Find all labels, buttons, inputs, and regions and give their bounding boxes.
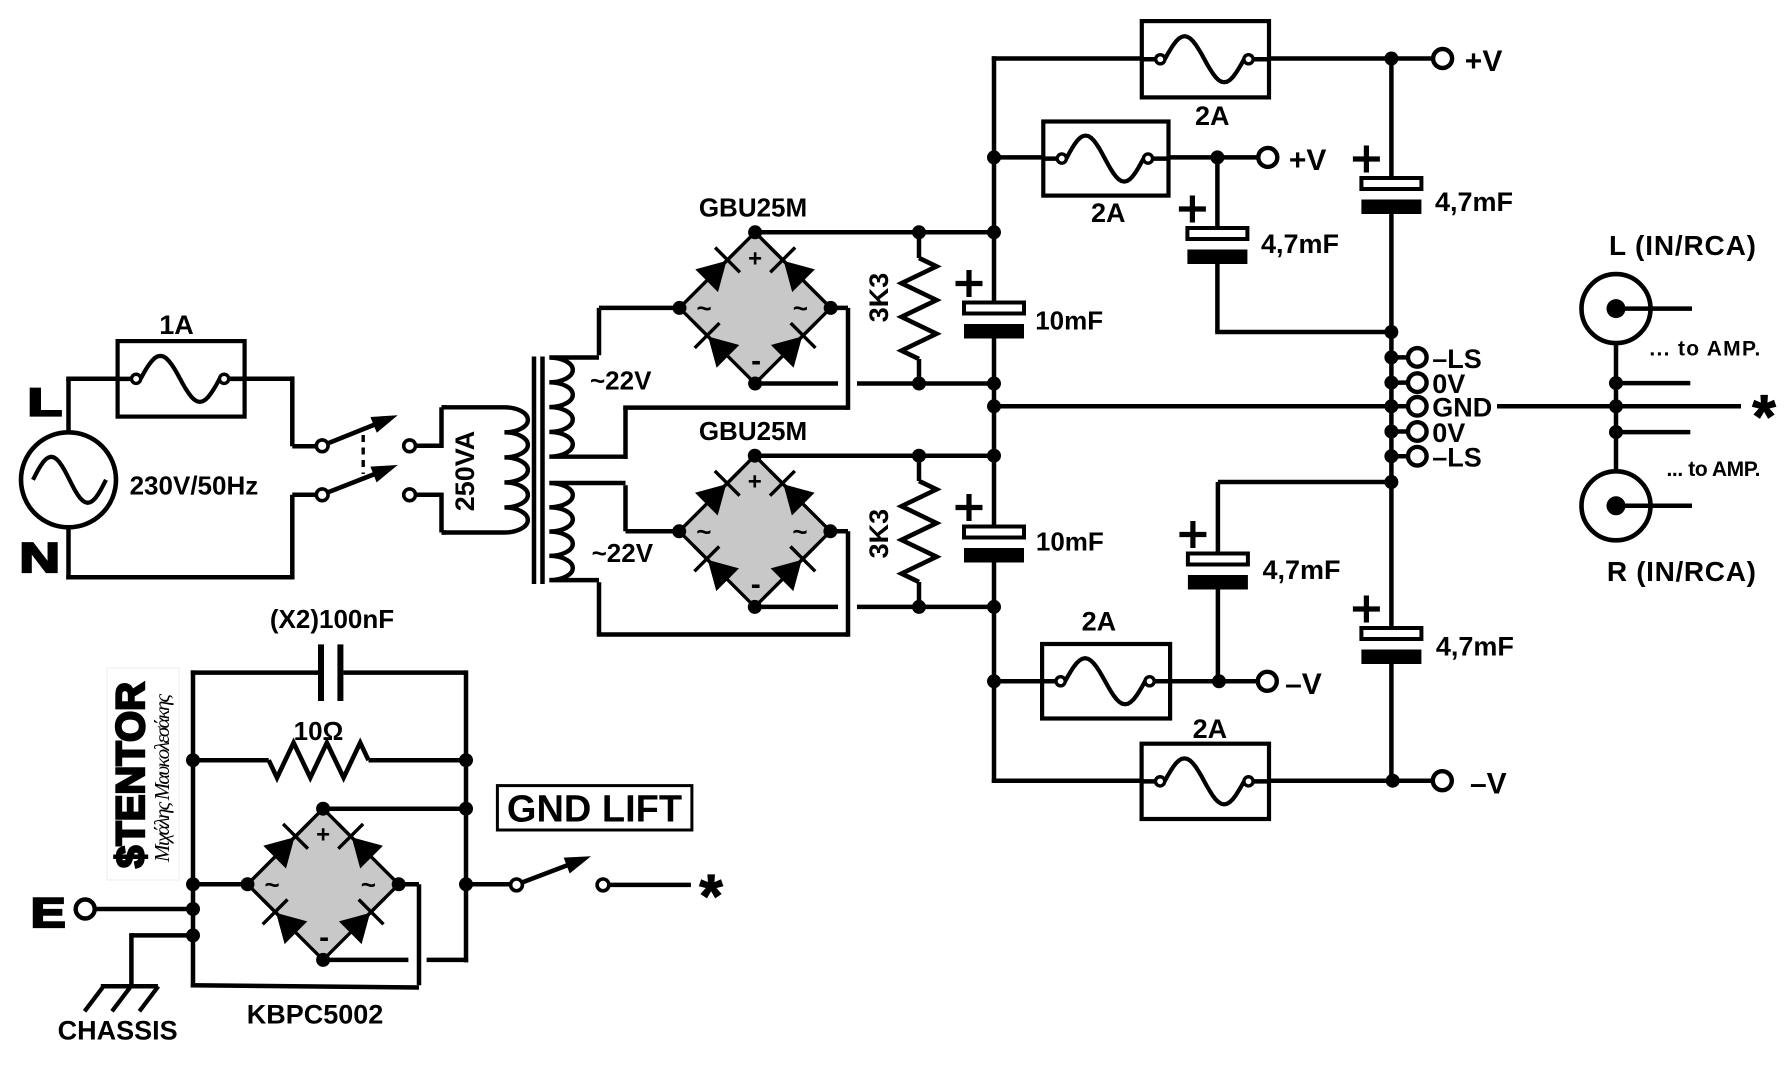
junction C3/rail X4 (1384, 325, 1398, 339)
junction F4/C5 (1212, 674, 1226, 688)
svg-text:+: + (316, 822, 330, 849)
svg-text:~: ~ (792, 516, 807, 546)
svg-text:+V: +V (1465, 45, 1503, 78)
wire rail X1 lower segment (992, 607, 997, 783)
junction BR2- / rail (987, 600, 1001, 614)
wire rail to F3 (994, 155, 1043, 160)
junction L shield 0V a (1609, 376, 1623, 390)
svg-text:230V/50Hz: 230V/50Hz (130, 470, 259, 500)
wire BR3 AC-right down (191, 884, 419, 987)
label KBPC5002 (247, 999, 384, 1029)
junction BR3 AC-left/rail X2 (186, 877, 200, 891)
node L (line) (28, 381, 63, 424)
svg-text:*: * (1752, 383, 1776, 450)
svg-text:R (IN/RCA): R (IN/RCA) (1607, 556, 1756, 587)
wire contact B2 to transformer (415, 493, 446, 533)
resistor R1 3K3 (902, 232, 937, 383)
svg-text:+: + (748, 469, 762, 496)
label 2A F4 (1082, 607, 1117, 637)
wire left rail X2 (191, 670, 196, 987)
junction BR2- / R2 bottom (912, 600, 926, 614)
label –LS 5 (1432, 443, 1482, 473)
capacitor C6 4,7mF (1353, 482, 1422, 781)
junction BR2+ / rail (987, 449, 1001, 463)
wire N-bottom (66, 495, 317, 580)
label 4,7mF C6 (1436, 631, 1514, 661)
fuse F4 2A (1042, 644, 1170, 719)
switch S1 gang dashed link (362, 435, 365, 474)
label ~22V upper (590, 366, 652, 396)
wire GND to terminal (994, 404, 1391, 409)
fuse F5 2A (1142, 744, 1269, 819)
junction BR3+/rail X3 (459, 802, 473, 816)
star point left (699, 863, 723, 930)
junction R3 right (459, 753, 473, 767)
wire L-top (66, 379, 71, 433)
svg-text:$TENTOR: $TENTOR (109, 682, 153, 868)
label GBU25M upper (699, 192, 807, 222)
switch S2 GND LIFT (511, 856, 591, 891)
wire 0V stub b (1616, 430, 1690, 435)
wire rail to F4 (994, 679, 1042, 684)
wire sec2-top to BR2 AC-left (626, 485, 680, 531)
junction F3/C3 (1210, 150, 1224, 164)
label 3K3 lower (864, 509, 894, 559)
label (X2)100nF (270, 604, 394, 634)
svg-text:Μιχάλης Μαυκολεσάκης: Μιχάλης Μαυκολεσάκης (150, 694, 174, 863)
junction E/rail X2 (186, 902, 200, 916)
wire rail X3 to switch S2 (466, 882, 511, 887)
transformer T1 secondary winding 1 (~22V) (549, 358, 625, 457)
terminal 0V 2 (1384, 373, 1426, 392)
svg-text:4,7mF: 4,7mF (1436, 631, 1514, 661)
svg-text:~: ~ (696, 516, 711, 546)
svg-text:–V: –V (1285, 668, 1322, 701)
node N (neutral) (19, 534, 60, 581)
wire contact A2 to transformer (415, 407, 446, 448)
wire sec1-top to BR1 AC-left (599, 308, 679, 355)
svg-text:2A: 2A (1195, 101, 1230, 131)
switch S2 contact 2 (597, 879, 609, 891)
svg-text:*: * (699, 863, 723, 930)
wire sec2-bot to BR2 AC-right (597, 531, 848, 637)
wire BR3 - output (323, 958, 468, 963)
terminal 0V 4 (1384, 422, 1426, 441)
label CHASSIS (58, 1015, 178, 1045)
svg-text:10Ω: 10Ω (294, 716, 344, 746)
svg-text:E: E (31, 890, 66, 937)
junction rail/F3 wire (987, 150, 1001, 164)
svg-text:~: ~ (697, 293, 712, 323)
wire right rail X3 (464, 670, 469, 962)
junction BR1- / R1 bottom (912, 377, 926, 391)
capacitor C1 10mF (956, 232, 1025, 383)
GND LIFT label box (497, 786, 692, 831)
junction L shield 0V b (1609, 425, 1623, 439)
label 230V/50Hz (130, 470, 259, 500)
label 4,7mF C5 (1263, 555, 1341, 585)
wire rail to F2 (992, 56, 1142, 61)
chassis ground symbol (85, 986, 159, 1011)
bridge rectifier BR2 GBU25M (672, 449, 837, 614)
svg-text:2A: 2A (1193, 714, 1228, 744)
wire L to fuse F1 (66, 376, 132, 381)
junction rail/C5 tap (1384, 475, 1398, 489)
junction rail GND tap (987, 399, 1001, 413)
switch S1 pole B (316, 465, 397, 501)
svg-text:10mF: 10mF (1035, 306, 1103, 336)
terminal +V mid (1258, 148, 1277, 167)
label 1A (159, 310, 194, 340)
fuse F3 2A (1043, 122, 1168, 196)
AC source V1 230V/50Hz (21, 432, 116, 527)
svg-text:~: ~ (361, 869, 376, 899)
wire BR2 - output (755, 605, 994, 610)
label 2A F3 (1091, 198, 1126, 228)
label GBU25M lower (699, 416, 807, 446)
RCA jack R outer (1582, 471, 1651, 540)
wire BR3 AC-left to rail X2 (193, 882, 248, 887)
wire F5 to -V (1269, 778, 1442, 783)
svg-text:2A: 2A (1082, 607, 1117, 637)
svg-text:–V: –V (1470, 768, 1507, 801)
svg-text:–LS: –LS (1432, 443, 1482, 473)
svg-text:~22V: ~22V (590, 366, 652, 396)
svg-text:GBU25M: GBU25M (699, 416, 807, 446)
wire 0V stub a (1616, 381, 1690, 386)
STENTOR logo (107, 668, 179, 880)
wire F4 to -V (1170, 679, 1267, 684)
capacitor C5 4,7mF (1179, 482, 1391, 681)
label to AMP upper (1649, 337, 1760, 360)
svg-text:~22V: ~22V (592, 538, 654, 568)
wire BR2 + output (755, 453, 994, 458)
wire E to rail X2 (95, 907, 193, 912)
junction BR2+ / R2 top (912, 449, 926, 463)
junction BR1- / rail (987, 377, 1001, 391)
label –LS 1 (1432, 344, 1482, 374)
wire BR1 - output (755, 381, 994, 386)
junction BR1+ / rail (987, 225, 1001, 239)
resistor R2 3K3 (902, 456, 937, 607)
capacitor C2 10mF (956, 456, 1025, 607)
svg-text:3K3: 3K3 (864, 509, 894, 559)
svg-text:... to AMP.: ... to AMP. (1667, 458, 1761, 481)
junction GND/RCA shield (1609, 399, 1623, 413)
RCA jack L pin (1607, 299, 1693, 318)
svg-text:4,7mF: 4,7mF (1261, 229, 1339, 259)
svg-text:GBU25M: GBU25M (699, 192, 807, 222)
label 4,7mF C4 (1435, 187, 1513, 217)
label -V mid (1285, 668, 1322, 701)
wire rail X4 terminal segment (1389, 332, 1394, 482)
terminal E earth (31, 890, 95, 937)
label +V mid (1289, 144, 1327, 177)
label 3K3 upper (864, 273, 894, 323)
label 0V 4 (1432, 418, 1465, 448)
switch S1 pole A (316, 415, 397, 451)
label 10mF lower (1036, 527, 1104, 557)
terminal +V top (1433, 49, 1452, 68)
star point right (1752, 383, 1776, 450)
wire F3 to +V (1169, 155, 1268, 160)
svg-text:L (IN/RCA): L (IN/RCA) (1609, 230, 1756, 261)
junction R3 left (186, 753, 200, 767)
wire rail to F5 (992, 778, 1142, 783)
wire rail X1 top segment (992, 56, 997, 232)
svg-text:1A: 1A (159, 310, 194, 340)
svg-text:4,7mF: 4,7mF (1435, 187, 1513, 217)
svg-text:4,7mF: 4,7mF (1263, 555, 1341, 585)
transformer T1 primary winding (442, 407, 528, 532)
svg-text:~: ~ (793, 293, 808, 323)
transformer T1 secondary winding 2 (~22V) (549, 483, 625, 580)
switch S1 contact A2 (404, 440, 416, 452)
RCA jack R pin (1607, 496, 1693, 515)
terminal GND 3 (1384, 397, 1426, 416)
terminal -V bottom (1433, 771, 1452, 790)
svg-text:(X2)100nF: (X2)100nF (270, 604, 394, 634)
wire chassis tap (131, 933, 193, 986)
svg-text:KBPC5002: KBPC5002 (247, 999, 384, 1029)
label GND 3 (1432, 393, 1492, 423)
terminal –LS 1 (1384, 348, 1426, 367)
label 0V 2 (1432, 369, 1465, 399)
label 10ohm (294, 716, 344, 746)
fuse F1 1A (118, 341, 245, 417)
wire F2 to +V (1269, 56, 1443, 61)
junction chassis/rail X2 (186, 928, 200, 942)
svg-text:... to AMP.: ... to AMP. (1649, 337, 1760, 360)
capacitor C7 (X2)100nF (191, 644, 466, 701)
svg-text:+V: +V (1289, 144, 1327, 177)
RCA jack L outer (1582, 274, 1651, 343)
svg-text:CHASSIS: CHASSIS (58, 1015, 178, 1045)
wire rail X1 mid segment (992, 384, 997, 456)
wire sec1-bot to BR1 AC-right (623, 308, 848, 459)
transformer T1 core (534, 357, 543, 585)
label -V bottom (1470, 768, 1507, 801)
terminal –LS 5 (1384, 447, 1426, 466)
label L (IN/RCA) (1609, 230, 1756, 261)
junction F2/rail X4 (1384, 52, 1398, 66)
bridge rectifier BR3 KBPC5002 (241, 802, 406, 967)
wire BR1 + output (755, 230, 994, 235)
svg-text:L: L (28, 381, 63, 424)
wire F1 to switch (228, 376, 317, 446)
junction F5/rail X4 (1386, 774, 1400, 788)
fuse F2 2A (1142, 21, 1269, 97)
label 10mF upper (1035, 306, 1103, 336)
svg-text:250VA: 250VA (450, 431, 480, 512)
junction rail/F4 wire (987, 674, 1001, 688)
wire BR3 + to rail X3 (323, 806, 466, 811)
capacitor C3 4,7mF (1179, 157, 1392, 332)
wire GND to star (1497, 404, 1741, 409)
capacitor C4 4,7mF (1353, 59, 1422, 333)
svg-text:N: N (19, 534, 60, 581)
label to AMP lower (1667, 458, 1761, 481)
label R (IN/RCA) (1607, 556, 1756, 587)
label ~22V lower (592, 538, 654, 568)
resistor R3 10ohm (193, 743, 466, 778)
wire L shield down (1614, 343, 1619, 471)
label 2A F2 (1195, 101, 1230, 131)
svg-text:2A: 2A (1091, 198, 1126, 228)
bridge rectifier BR1 GBU25M (673, 225, 838, 390)
svg-text:~: ~ (265, 869, 280, 899)
terminal -V mid (1258, 672, 1277, 691)
svg-text:-: - (751, 568, 761, 601)
svg-text:10mF: 10mF (1036, 527, 1104, 557)
label +V top (1465, 45, 1503, 78)
junction S2/rail X3 (459, 877, 473, 891)
switch S1 contact B2 (404, 489, 416, 501)
svg-text:-: - (751, 345, 761, 378)
label 2A F5 (1193, 714, 1228, 744)
wire S2 to star (609, 883, 691, 888)
svg-text:+: + (748, 245, 762, 272)
label 250VA (450, 431, 480, 512)
label 4,7mF C3 (1261, 229, 1339, 259)
svg-text:-: - (319, 921, 329, 954)
svg-text:GND LIFT: GND LIFT (507, 789, 682, 831)
junction BR1+ / R1 top (912, 225, 926, 239)
svg-text:3K3: 3K3 (864, 273, 894, 323)
